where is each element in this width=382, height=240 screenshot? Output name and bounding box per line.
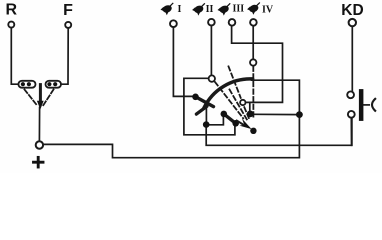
wire battery to right rail [43,80,299,158]
junction dot right rail [296,111,303,118]
svg-text:KD: KD [341,2,363,19]
flash glyph II [192,3,205,16]
dashed ray mid [230,90,247,120]
junction dot lower-left [203,121,210,128]
svg-text:R: R [6,2,18,19]
flash glyph IV [247,2,260,15]
button contact bottom [348,111,355,118]
contact bar 2 [224,114,236,123]
dashed link right lamp [43,90,54,106]
terminal KD [349,19,356,26]
actuator arrow (left switch) [39,85,42,103]
switch frame left [184,78,235,135]
terminal R [8,22,14,28]
flash glyph I [161,3,174,16]
link wire to bar2 [206,115,223,125]
wire III path [232,26,283,103]
dashed ray IV vertical [252,67,254,119]
position contact IV [250,59,256,65]
dashed link left lamp [25,90,38,106]
wire I down [173,27,193,96]
position contact III link [240,100,245,105]
wire contact to junction [250,113,299,115]
dashed ray upper through contact III [229,66,241,97]
svg-text:F: F [63,2,73,19]
rotor arc [204,79,253,108]
common rail from switch to button [206,118,352,145]
wire KD down [351,27,353,93]
contact bar 1b [196,106,207,114]
button contact top [347,91,354,98]
contact dot mid [247,111,254,118]
button bottom lead [350,117,352,146]
terminal I [170,20,177,27]
terminal F [65,22,71,28]
dashed ray to contact I/II [215,82,243,118]
wire II down [210,26,212,76]
contact T-drop [249,103,251,111]
lamp contact right [46,81,62,88]
svg-text:III: III [232,4,244,15]
terminal II [208,19,215,26]
wiper center dot [250,128,256,134]
terminal IV [250,19,257,26]
flash glyph III [218,3,231,16]
terminal III [229,19,236,26]
button plunger [359,89,364,121]
battery terminal [36,141,43,148]
wire R down [11,28,18,85]
svg-text:II: II [206,4,214,15]
button stem [363,104,369,106]
wire IV down [252,26,254,61]
contact bar 1 [196,97,214,107]
wire lamp node to battery [38,108,40,142]
wiper arrow [237,121,243,125]
wire F down [61,28,68,84]
lamp contact left [18,81,35,88]
plus sign [34,157,44,167]
svg-text:I: I [178,4,182,15]
button knob fork [372,99,375,111]
bar1 drop link [205,106,207,125]
svg-text:IV: IV [262,4,274,15]
position contact I/II [209,75,215,81]
